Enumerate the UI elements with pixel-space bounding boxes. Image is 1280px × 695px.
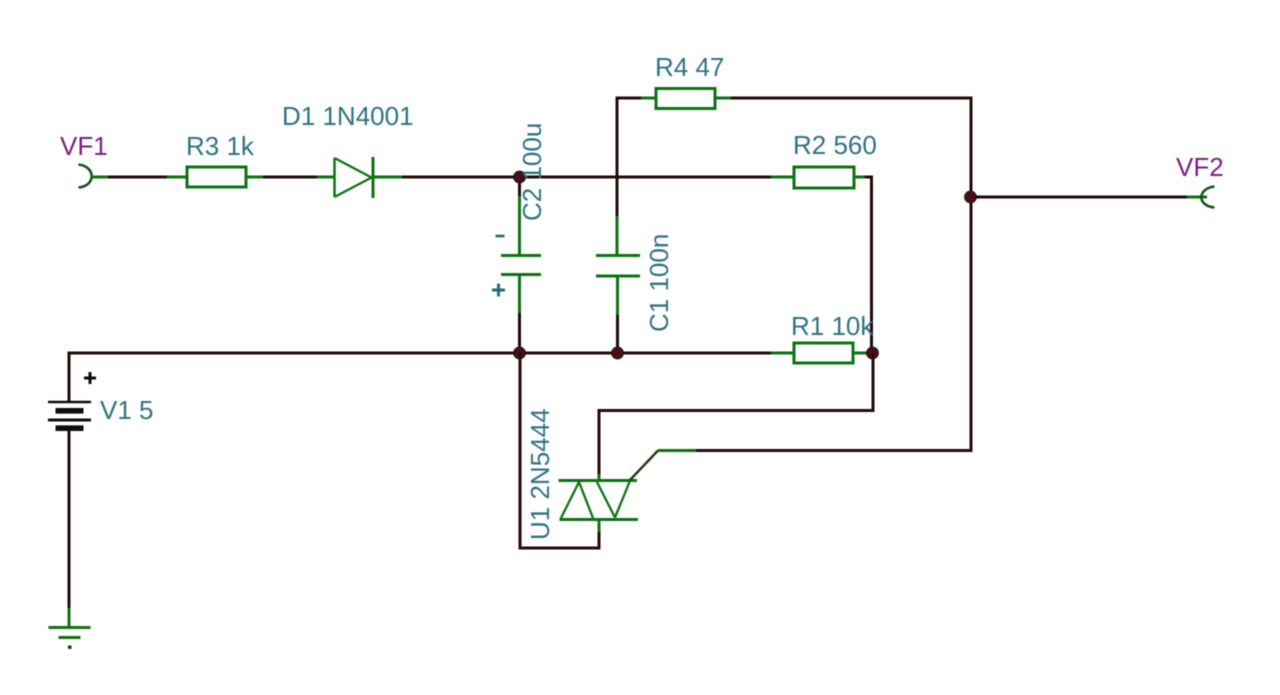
node B junction bbox=[514, 347, 526, 359]
node A junction bbox=[514, 171, 526, 183]
triac U1 bbox=[559, 481, 639, 520]
C2 minus sign bbox=[496, 235, 505, 238]
svg-text:R1 10k: R1 10k bbox=[791, 311, 874, 341]
wire R1 right to node D bbox=[853, 352, 873, 355]
battery plus sign bbox=[84, 372, 96, 384]
terminal VF1 bbox=[79, 165, 92, 188]
wire battery to ground bbox=[68, 430, 71, 627]
ground bbox=[49, 628, 91, 638]
wire node A to R2 bbox=[523, 176, 794, 179]
wire R3 to D1 bbox=[246, 176, 334, 179]
C2 plus sign bbox=[492, 284, 505, 297]
svg-text:D1 1N4001: D1 1N4001 bbox=[282, 101, 414, 131]
resistor R2 bbox=[794, 167, 854, 188]
svg-text:U1 2N5444: U1 2N5444 bbox=[525, 408, 555, 540]
resistor R1 bbox=[794, 343, 853, 363]
wire R4 right to node E bbox=[715, 97, 973, 194]
wire ground bus bbox=[69, 352, 794, 355]
svg-text:C2 100u: C2 100u bbox=[517, 123, 547, 221]
wire VF1 to R3 bbox=[91, 176, 188, 179]
resistor R4 bbox=[656, 89, 715, 109]
terminal VF2 bbox=[1201, 187, 1214, 208]
svg-text:R3 1k: R3 1k bbox=[186, 131, 255, 161]
capacitor C1 bbox=[596, 256, 640, 350]
svg-text:C1 100n: C1 100n bbox=[644, 234, 674, 332]
wire triac gate to node E bbox=[630, 201, 973, 480]
node C junction bbox=[612, 347, 624, 359]
svg-text:R4 47: R4 47 bbox=[655, 52, 724, 82]
diode D1 bbox=[335, 157, 374, 198]
wire bus to battery bbox=[68, 352, 71, 402]
wire R4 left to C1 bbox=[617, 97, 656, 255]
resistor R3 bbox=[187, 167, 246, 187]
battery V1 bbox=[48, 402, 91, 428]
wire D1 to node A bbox=[374, 176, 516, 179]
svg-text:R2 560: R2 560 bbox=[793, 130, 877, 160]
svg-text:VF1: VF1 bbox=[60, 131, 108, 161]
capacitor C2 bbox=[501, 183, 541, 349]
ground dot bbox=[68, 646, 71, 649]
wire node E to VF2 bbox=[976, 196, 1207, 199]
wire node D to triac MT2 bbox=[598, 353, 875, 480]
node D junction bbox=[867, 347, 879, 359]
svg-text:VF2: VF2 bbox=[1176, 152, 1224, 182]
svg-text:V1 5: V1 5 bbox=[100, 395, 154, 425]
wire triac MT1 to node B bbox=[519, 353, 601, 550]
wire R2 to node D bbox=[854, 176, 873, 354]
node E junction bbox=[965, 191, 977, 203]
